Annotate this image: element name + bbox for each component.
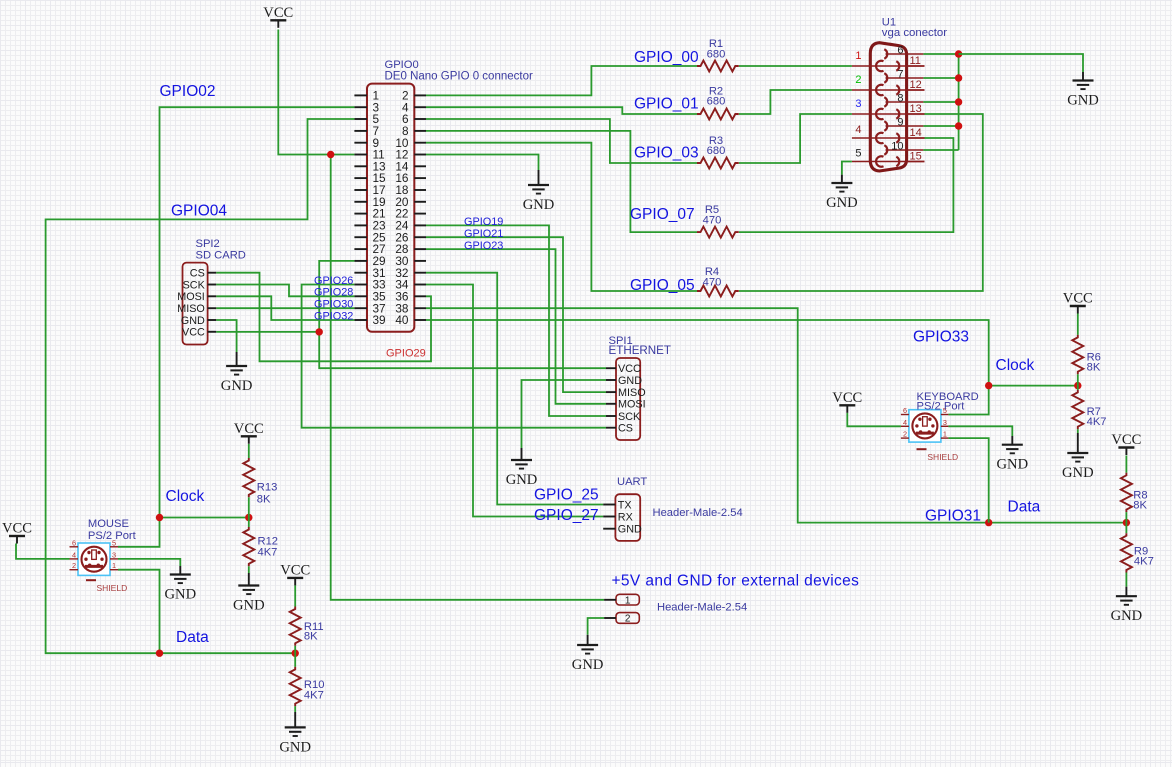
wire R4 up to VGA pin13 bbox=[739, 114, 983, 291]
ground R12 bbox=[233, 573, 265, 614]
wire keyboard pin1 down to data line bbox=[948, 438, 988, 522]
svg-text:40: 40 bbox=[395, 313, 409, 327]
svg-text:4K7: 4K7 bbox=[1087, 416, 1107, 428]
VGA shared pin row lines (pins 1-5 / 11-15) bbox=[852, 66, 925, 162]
mouse port pin numbers bbox=[72, 538, 116, 570]
power flag VCC R6 bbox=[1063, 291, 1093, 314]
connector GPIO0 DE0 Nano GPIO 0 connector body bbox=[367, 84, 414, 332]
wire mouse pin5 to clock junction bbox=[118, 518, 160, 547]
connector U1 vga conector outline bbox=[870, 43, 906, 171]
svg-text:GND: GND bbox=[523, 197, 555, 213]
wire R1 to VGA pin1 bbox=[739, 65, 852, 67]
svg-text:14: 14 bbox=[910, 127, 922, 139]
resistor R9 4K7 bbox=[1121, 533, 1154, 572]
wire net GPIO_07: pin8 to R5 bbox=[426, 131, 697, 232]
connector SD card pin stubs bbox=[208, 273, 217, 332]
svg-text:MOSI: MOSI bbox=[618, 399, 646, 411]
wire mouse pin1 to data line bbox=[118, 570, 160, 654]
ground VGA pin5 bbox=[826, 175, 858, 211]
svg-text:8: 8 bbox=[897, 93, 903, 105]
svg-text:Clock: Clock bbox=[166, 488, 205, 505]
connector GPIO0 pin numbers 1-40 bbox=[373, 89, 409, 328]
svg-text:2: 2 bbox=[855, 74, 861, 86]
ground SD card bbox=[221, 352, 253, 394]
resistor R8 8K bbox=[1121, 473, 1148, 512]
svg-text:DE0 Nano GPIO 0 connector: DE0 Nano GPIO 0 connector bbox=[385, 70, 533, 82]
resistor R3 680 bbox=[697, 135, 739, 169]
svg-text:GND: GND bbox=[164, 587, 196, 603]
wire R10 to ground bbox=[294, 706, 296, 712]
svg-text:Data: Data bbox=[176, 629, 209, 646]
svg-text:470: 470 bbox=[703, 214, 722, 226]
junction SD VCC bbox=[316, 328, 323, 335]
wire net GPIO_01: pin4 to R2 bbox=[426, 107, 697, 114]
wire R5 up to VGA pin14 bbox=[739, 138, 953, 232]
svg-text:MOSI: MOSI bbox=[177, 291, 205, 303]
svg-text:GPIO_03: GPIO_03 bbox=[634, 145, 699, 162]
svg-text:7: 7 bbox=[897, 69, 903, 81]
svg-text:4: 4 bbox=[72, 550, 76, 559]
MOUSE PS/2 mini-DIN connector symbol bbox=[78, 543, 110, 575]
svg-text:VCC: VCC bbox=[280, 562, 310, 578]
junction clock-right bbox=[245, 514, 252, 521]
VGA left pin numbers 1-5 bbox=[855, 50, 861, 160]
VGA pin numbers 6-10 bbox=[891, 45, 903, 153]
connector SPI1 ETHERNET body bbox=[616, 358, 640, 440]
svg-text:GPIO02: GPIO02 bbox=[160, 83, 216, 100]
junction VGA pin6 bbox=[955, 50, 962, 57]
wire R11 to R10 through data junction bbox=[294, 646, 296, 667]
power flag VCC top bbox=[263, 5, 293, 28]
wire R9 to ground bbox=[1125, 573, 1127, 587]
svg-text:11: 11 bbox=[910, 55, 921, 67]
resistor R1 680 bbox=[697, 38, 739, 72]
wire net GPIO_03: pin6 to R3 bbox=[426, 119, 697, 163]
junction VGA pin8 bbox=[955, 98, 962, 105]
connector GPIO0 pin stubs bbox=[354, 95, 426, 320]
connector UART pin names bbox=[618, 499, 642, 535]
svg-text:GPIO26: GPIO26 bbox=[314, 275, 353, 287]
resistor R6 8K bbox=[1072, 335, 1101, 374]
wire mouse pin4 to VCC flag bbox=[16, 544, 70, 559]
wire R6 to R7 through clock junction bbox=[1077, 374, 1079, 390]
svg-text:GPIO29: GPIO29 bbox=[386, 348, 426, 360]
junction keyboard clock-left bbox=[985, 382, 992, 389]
wire net GPIO33: pin40 to keyboard clock (pin5) bbox=[426, 320, 989, 415]
svg-text:GPIO30: GPIO30 bbox=[314, 299, 353, 311]
wire VCC to R6 bbox=[1077, 314, 1079, 335]
svg-text:1: 1 bbox=[943, 430, 947, 439]
svg-text:VCC: VCC bbox=[263, 5, 293, 21]
svg-text:8K: 8K bbox=[1087, 361, 1101, 373]
mouse shield mark bbox=[86, 579, 96, 581]
power flag VCC mouse bbox=[2, 521, 32, 544]
svg-text:GND: GND bbox=[572, 657, 604, 673]
wire net GPIO19: pin24 to ethernet SCK bbox=[426, 225, 606, 416]
svg-text:3: 3 bbox=[112, 550, 116, 559]
connector UART pin stubs bbox=[603, 505, 615, 529]
svg-text:GND: GND bbox=[618, 375, 642, 387]
svg-text:4K7: 4K7 bbox=[258, 546, 278, 558]
svg-text:Header-Male-2.54: Header-Male-2.54 bbox=[653, 507, 743, 519]
wire net GPIO_00: pin2 up to R1 row bbox=[426, 66, 697, 95]
wire SD card VCC pin to junction bbox=[216, 331, 319, 333]
svg-text:6: 6 bbox=[897, 45, 903, 57]
svg-text:CS: CS bbox=[618, 423, 633, 435]
wire net GPIO30: SD MISO to pin37 bbox=[216, 307, 354, 309]
wire VCC to R8 bbox=[1125, 456, 1127, 473]
svg-text:GND: GND bbox=[506, 472, 538, 488]
wire VCC to R11 bbox=[294, 585, 296, 606]
junction VGA pin7 bbox=[955, 74, 962, 81]
svg-text:4: 4 bbox=[855, 124, 861, 136]
svg-text:10: 10 bbox=[891, 141, 903, 153]
junction data-left bbox=[156, 650, 163, 657]
wire mouse pin3 to ground bbox=[118, 559, 180, 566]
wire SD GND pin to ground bbox=[216, 320, 236, 352]
keyboard shield mark bbox=[917, 448, 927, 450]
junction VCC/pin11 bbox=[327, 151, 334, 158]
svg-text:GND: GND bbox=[1067, 93, 1099, 109]
svg-text:GPIO_01: GPIO_01 bbox=[634, 95, 699, 112]
svg-text:MOUSE: MOUSE bbox=[88, 518, 129, 530]
svg-text:39: 39 bbox=[373, 313, 386, 327]
svg-text:8K: 8K bbox=[1133, 499, 1147, 511]
ground R7 bbox=[1062, 433, 1094, 481]
wire R13 to R12 through clock junction bbox=[248, 497, 250, 527]
svg-text:5: 5 bbox=[855, 148, 861, 160]
svg-text:13: 13 bbox=[910, 103, 922, 115]
svg-text:470: 470 bbox=[703, 276, 722, 288]
header pin 2 (GND) bbox=[604, 613, 639, 625]
svg-text:Header-Male-2.54: Header-Male-2.54 bbox=[657, 602, 747, 614]
svg-text:+5V and GND for external devic: +5V and GND for external devices bbox=[612, 573, 860, 590]
svg-text:680: 680 bbox=[707, 96, 726, 108]
power flag VCC keyboard bbox=[832, 390, 862, 413]
ground R10 bbox=[279, 712, 311, 755]
svg-text:RX: RX bbox=[618, 511, 633, 523]
svg-text:GPIO_25: GPIO_25 bbox=[534, 486, 599, 503]
wire VCC to R13 bbox=[248, 444, 250, 458]
resistor R7 4K7 bbox=[1072, 390, 1106, 429]
keyboard port pin numbers bbox=[903, 406, 947, 439]
VGA pin contact arcs pins 11-15 bbox=[896, 61, 899, 166]
svg-text:VCC: VCC bbox=[832, 390, 862, 406]
svg-text:CS: CS bbox=[190, 268, 205, 280]
svg-text:SD CARD: SD CARD bbox=[196, 250, 246, 262]
junction clock-left bbox=[156, 514, 163, 521]
svg-text:680: 680 bbox=[707, 145, 726, 157]
wire VGA common vertical bbox=[958, 54, 960, 150]
svg-text:VCC: VCC bbox=[182, 327, 205, 339]
svg-text:VCC: VCC bbox=[618, 363, 641, 375]
svg-text:GND: GND bbox=[233, 598, 265, 614]
ground ethernet bbox=[506, 448, 538, 488]
VGA pins 11-15 stubs bbox=[907, 66, 925, 162]
svg-text:9: 9 bbox=[897, 117, 903, 129]
wire VGA common to ground bbox=[959, 54, 1083, 72]
svg-text:GPIO04: GPIO04 bbox=[171, 202, 227, 219]
VGA pin numbers 11-15 bbox=[910, 55, 922, 163]
wire net GPIO02: pin3 to mouse clock junction bbox=[160, 107, 355, 517]
svg-text:GPIO31: GPIO31 bbox=[925, 507, 981, 524]
VGA pin contact arcs pins 1-5 bbox=[876, 61, 883, 167]
svg-text:GPIO_05: GPIO_05 bbox=[630, 277, 695, 294]
wire keyboard pin3 to ground bbox=[948, 426, 1012, 436]
wire R12 to ground bbox=[248, 566, 250, 573]
svg-text:GPIO19: GPIO19 bbox=[464, 216, 503, 228]
svg-text:8K: 8K bbox=[304, 631, 318, 643]
wire net GPIO_25: pin32 to UART TX bbox=[426, 273, 603, 505]
junction keyboard data / R8 R9 bbox=[1123, 519, 1130, 526]
resistor R4 470 bbox=[697, 266, 739, 296]
svg-text:UART: UART bbox=[617, 476, 647, 488]
svg-text:Data: Data bbox=[1008, 499, 1041, 516]
resistor R12 4K7 bbox=[243, 527, 278, 566]
resistor R5 470 bbox=[697, 204, 739, 238]
wire net GPIO04: pin5 down-left to mouse data line bbox=[46, 119, 355, 653]
svg-text:SCK: SCK bbox=[183, 279, 206, 291]
ground keyboard pin3 bbox=[996, 436, 1028, 473]
svg-text:GND: GND bbox=[996, 457, 1028, 473]
resistor R2 680 bbox=[697, 85, 739, 119]
svg-text:SPI2: SPI2 bbox=[196, 238, 220, 250]
VGA pin row lines (pins 6-10) bbox=[886, 54, 924, 150]
junction VGA pin9 bbox=[955, 122, 962, 129]
svg-text:GPIO_00: GPIO_00 bbox=[634, 49, 699, 66]
VGA pin contact arcs pins 6-10 bbox=[884, 49, 887, 154]
junction keyboard data / pin1 bbox=[985, 519, 992, 526]
svg-text:4K7: 4K7 bbox=[304, 689, 324, 701]
wire net GPIO_05: pin10 to R4 bbox=[426, 143, 697, 291]
svg-text:SCK: SCK bbox=[618, 411, 641, 423]
wire net GPIO32: SD MOSI to pin39 bbox=[216, 296, 354, 320]
svg-text:GND: GND bbox=[221, 378, 253, 394]
KEYBOARD PS/2 mini-DIN connector symbol bbox=[909, 410, 941, 442]
ground VGA right bbox=[1067, 72, 1099, 109]
svg-text:2: 2 bbox=[903, 430, 907, 439]
svg-text:GPIO_27: GPIO_27 bbox=[534, 507, 599, 524]
wire keyboard pin4 to VCC flag bbox=[847, 413, 901, 427]
wire net GPIO23: pin28 to ethernet MOSI bbox=[426, 249, 606, 404]
keyboard port pin stubs bbox=[901, 415, 949, 439]
svg-text:GPIO32: GPIO32 bbox=[314, 310, 353, 322]
svg-text:GPIO21: GPIO21 bbox=[464, 228, 503, 240]
svg-text:GPIO_07: GPIO_07 bbox=[630, 206, 695, 223]
wire net GPIO21: pin26 to ethernet MISO bbox=[426, 237, 606, 392]
wire keyboard clock junction to R6/R7 junction bbox=[989, 385, 1078, 387]
svg-text:ETHERNET: ETHERNET bbox=[609, 344, 671, 357]
svg-text:VCC: VCC bbox=[2, 521, 32, 537]
wire pin29 to SD VCC junction and ethernet VCC bbox=[319, 261, 606, 368]
wire R3 up to VGA pin3 bbox=[739, 114, 852, 163]
svg-text:SHIELD: SHIELD bbox=[97, 583, 128, 593]
svg-text:MISO: MISO bbox=[618, 387, 646, 399]
svg-text:Clock: Clock bbox=[996, 357, 1035, 374]
svg-text:SHIELD: SHIELD bbox=[927, 452, 958, 462]
svg-text:PS/2 Port: PS/2 Port bbox=[88, 530, 137, 542]
svg-text:6: 6 bbox=[72, 538, 76, 547]
ground GPIO0 pin12 bbox=[523, 170, 555, 213]
wire net GPIO31: pin38 to keyboard data line bbox=[426, 308, 1126, 522]
wire VGA pin5 to ground bbox=[842, 162, 852, 175]
wire SD CS to pin36 (net GPIO29) bbox=[216, 273, 431, 362]
svg-text:VCC: VCC bbox=[234, 421, 264, 437]
svg-text:1: 1 bbox=[625, 595, 631, 606]
power flag VCC R8 bbox=[1111, 432, 1141, 455]
connector ethernet pin stubs bbox=[606, 368, 616, 428]
svg-text:15: 15 bbox=[910, 151, 922, 163]
svg-text:3: 3 bbox=[855, 98, 861, 110]
svg-text:MISO: MISO bbox=[177, 303, 205, 315]
svg-text:R13: R13 bbox=[257, 482, 278, 494]
svg-text:GPIO23: GPIO23 bbox=[464, 240, 503, 252]
svg-text:4K7: 4K7 bbox=[1134, 555, 1154, 567]
mouse port pin stubs bbox=[70, 547, 119, 570]
junction keyboard clock-right bbox=[1074, 382, 1081, 389]
svg-text:2: 2 bbox=[625, 614, 631, 625]
wire net GPIO26: pin33 to ethernet CS bbox=[302, 285, 606, 428]
wire net GPIO28: SD SCK to pin35 bbox=[216, 285, 354, 297]
ground R9 bbox=[1111, 587, 1143, 625]
power flag VCC R11 bbox=[280, 562, 310, 585]
svg-text:12: 12 bbox=[910, 79, 922, 91]
svg-text:4: 4 bbox=[903, 418, 907, 427]
svg-text:GND: GND bbox=[181, 315, 205, 327]
svg-text:GND: GND bbox=[618, 524, 642, 536]
svg-text:VCC: VCC bbox=[1111, 432, 1141, 448]
connector ethernet pin names bbox=[618, 363, 646, 435]
svg-text:6: 6 bbox=[903, 406, 907, 415]
svg-text:GPIO0: GPIO0 bbox=[385, 59, 419, 71]
wire R8 to R9 through data junction bbox=[1125, 512, 1127, 533]
header pin 1 (+5V) bbox=[604, 594, 639, 606]
wire net GPIO_27: pin34 to UART RX bbox=[426, 285, 603, 517]
svg-text:8K: 8K bbox=[257, 493, 271, 505]
svg-text:1: 1 bbox=[112, 561, 116, 570]
svg-text:GPIO33: GPIO33 bbox=[913, 328, 969, 345]
svg-text:1: 1 bbox=[855, 50, 861, 62]
resistor R11 8K bbox=[290, 607, 324, 646]
connector SPI2 SD CARD body bbox=[183, 263, 208, 345]
ground +5V header bbox=[572, 635, 604, 673]
power flag VCC R13 bbox=[234, 421, 264, 444]
wire net VCC: top flag to pin11 and +5V header pin1 bbox=[278, 30, 354, 155]
wire header pin2 to ground bbox=[588, 618, 605, 635]
connector UART body bbox=[615, 494, 640, 541]
wire mouse clock: junction to R13/R12 junction bbox=[160, 517, 249, 519]
resistor R13 8K bbox=[243, 458, 277, 505]
wire R2 up to VGA pin2 bbox=[739, 90, 852, 114]
svg-text:PS/2 Port: PS/2 Port bbox=[917, 400, 966, 412]
svg-text:TX: TX bbox=[618, 499, 632, 511]
wire VGA pins 6-10 to common vertical bbox=[923, 54, 958, 150]
svg-text:GND: GND bbox=[1062, 465, 1094, 481]
svg-text:GND: GND bbox=[1111, 608, 1143, 624]
svg-text:VCC: VCC bbox=[1063, 291, 1093, 307]
resistor R10 4K7 bbox=[290, 667, 325, 706]
svg-text:GND: GND bbox=[279, 739, 311, 755]
ground mouse pin3 bbox=[164, 566, 196, 603]
junction data-right (R11/R10) bbox=[292, 650, 299, 657]
svg-text:GPIO28: GPIO28 bbox=[314, 287, 353, 299]
wire pin12 to ground bbox=[426, 155, 539, 171]
svg-text:680: 680 bbox=[707, 48, 726, 60]
svg-text:vga conector: vga conector bbox=[882, 27, 947, 39]
connector SD card pin names bbox=[177, 268, 205, 339]
svg-text:GND: GND bbox=[826, 195, 858, 211]
svg-text:3: 3 bbox=[943, 418, 947, 427]
wire ethernet GND pin to ground bbox=[522, 380, 607, 448]
svg-text:2: 2 bbox=[72, 561, 76, 570]
wire R7 to ground bbox=[1077, 429, 1079, 433]
